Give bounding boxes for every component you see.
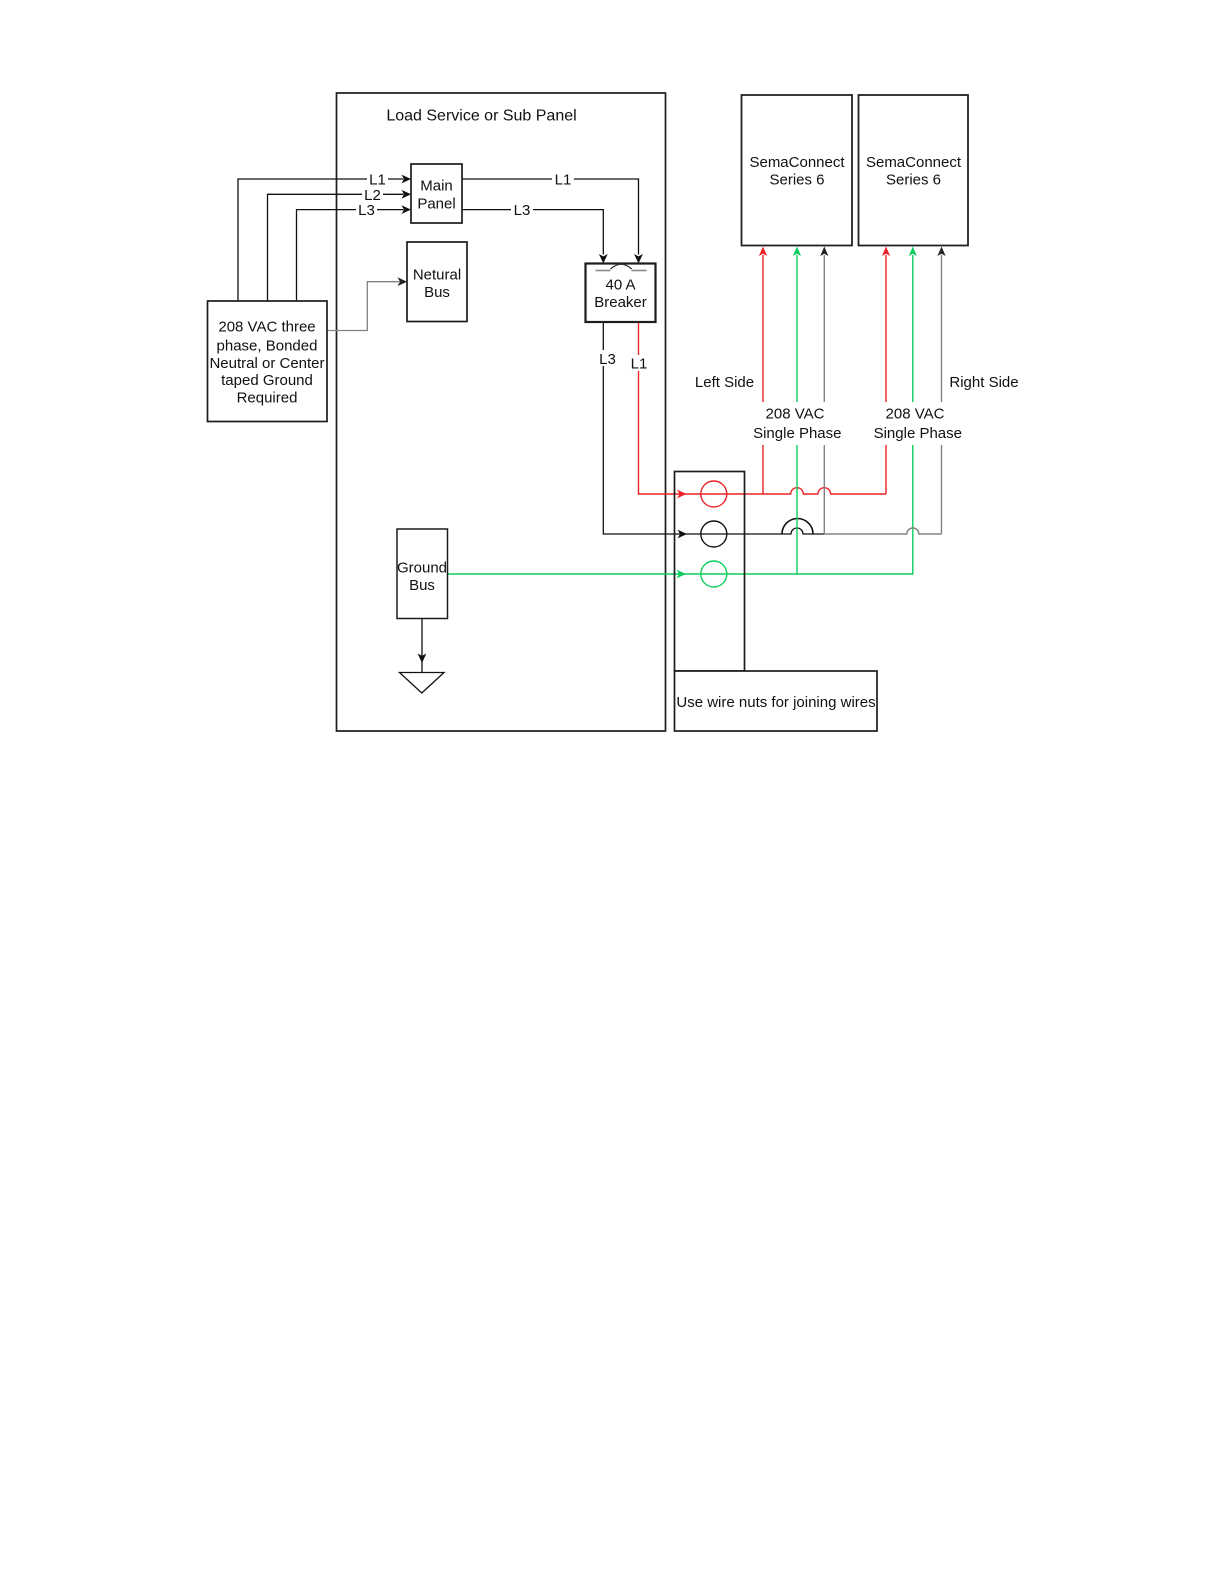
svg-text:Use wire nuts for joining wire: Use wire nuts for joining wires: [676, 694, 875, 711]
wire L1 breaker output (red): [639, 322, 887, 494]
svg-text:phase, Bonded: phase, Bonded: [217, 337, 318, 354]
arrowhead ground down: [418, 654, 427, 664]
arrowhead neutral into Netural Bus: [398, 277, 408, 286]
svg-text:Single Phase: Single Phase: [753, 425, 841, 442]
svg-text:L1: L1: [631, 356, 648, 373]
ground bus box: [397, 529, 448, 619]
label 208 VAC Single Phase (left): [752, 402, 842, 445]
wire nut circle red: [701, 481, 727, 507]
svg-text:Left Side: Left Side: [695, 374, 754, 391]
svg-text:Required: Required: [237, 390, 298, 407]
svg-text:L3: L3: [358, 202, 375, 219]
gray wire continuing to right charger with hop: [824, 528, 941, 534]
svg-text:Bus: Bus: [424, 284, 450, 301]
label 208 VAC Single Phase (right): [872, 402, 962, 445]
red vertical to right charger: [885, 255, 887, 494]
svg-text:L3: L3: [599, 351, 616, 368]
arrowhead L2 into Main Panel: [402, 190, 412, 199]
arrowhead L3 into Main Panel: [402, 205, 412, 214]
svg-text:taped Ground: taped Ground: [221, 372, 313, 389]
ground symbol triangle: [400, 673, 445, 694]
breaker symbol dashes: [596, 270, 611, 272]
wire L2 source feed: [268, 194, 404, 301]
arrowhead green into wire nut: [677, 570, 687, 579]
svg-text:SemaConnect: SemaConnect: [866, 154, 962, 171]
208 VAC source box: [208, 301, 328, 422]
wire nut circle green: [701, 561, 727, 587]
arrowhead red left charger: [759, 247, 767, 257]
panel: Load Service or Sub Panel: [337, 93, 666, 731]
svg-text:40 A: 40 A: [605, 277, 635, 294]
svg-text:Load Service or Sub Panel: Load Service or Sub Panel: [386, 108, 576, 125]
wire L1 source feed: [238, 179, 404, 301]
svg-text:Series 6: Series 6: [769, 172, 824, 189]
SemaConnect left box: [742, 95, 853, 246]
label L3 (input): [356, 202, 377, 218]
main panel box: [411, 164, 462, 223]
arrowhead green right charger: [909, 247, 917, 257]
svg-text:Main: Main: [420, 178, 453, 195]
label L1 (input): [367, 171, 388, 187]
svg-text:208 VAC: 208 VAC: [886, 406, 945, 423]
arrowhead black right charger: [937, 247, 945, 257]
wire nut circle black: [701, 521, 727, 547]
breaker symbol arc: [611, 264, 632, 269]
big hop arc over green: [782, 518, 813, 534]
SemaConnect right box: [859, 95, 969, 246]
svg-text:Series 6: Series 6: [886, 172, 941, 189]
arrowhead L1 into Main Panel: [402, 175, 412, 184]
label L1 (to breaker): [552, 171, 574, 187]
arrowhead red right charger: [882, 247, 890, 257]
wire L1 from Main Panel to breaker: [462, 179, 639, 255]
wire L3 breaker output (black): [603, 322, 824, 534]
svg-text:L1: L1: [555, 172, 572, 189]
svg-text:Right Side: Right Side: [949, 374, 1018, 391]
svg-text:208 VAC: 208 VAC: [766, 406, 825, 423]
gray vertical to right charger: [941, 255, 943, 534]
wire nut joint box: [675, 472, 745, 672]
svg-text:Bus: Bus: [409, 577, 435, 594]
svg-text:Netural: Netural: [413, 267, 461, 284]
svg-text:L3: L3: [514, 202, 531, 219]
40 A breaker box: [586, 264, 656, 323]
gray vertical to left charger: [823, 255, 825, 534]
wire L3 from Main Panel to breaker: [462, 210, 603, 255]
arrowhead L3 into breaker: [599, 254, 608, 264]
arrowhead green left charger: [793, 247, 801, 257]
label L2 (input): [362, 187, 383, 203]
svg-text:208 VAC three: 208 VAC three: [218, 319, 315, 336]
arrowhead black left charger: [820, 247, 828, 257]
green vertical to left charger: [796, 255, 798, 574]
neutral wire from source to neutral bus (gray): [327, 282, 400, 331]
svg-text:SemaConnect: SemaConnect: [749, 154, 845, 171]
svg-text:Neutral or Center: Neutral or Center: [209, 355, 324, 372]
arrowhead L1 into breaker: [634, 254, 643, 264]
neutral bus box: [407, 242, 467, 322]
red vertical to left charger: [762, 255, 764, 494]
arrowhead L1 red into wire nut: [677, 490, 687, 499]
svg-text:Ground: Ground: [397, 560, 447, 577]
green ground wire from Ground Bus to wire nut: [448, 255, 913, 574]
ground wire down: [421, 619, 423, 673]
svg-text:Panel: Panel: [417, 196, 455, 213]
label L3 (breaker output): [597, 350, 618, 366]
wire L3 source feed: [297, 210, 404, 301]
note box: use wire nuts: [675, 671, 878, 731]
svg-text:Breaker: Breaker: [594, 294, 647, 311]
label L1 (breaker output): [628, 355, 650, 371]
arrowhead L3 into wire nut: [678, 530, 688, 539]
label L3 (to breaker): [511, 202, 533, 218]
svg-text:Single Phase: Single Phase: [874, 425, 962, 442]
